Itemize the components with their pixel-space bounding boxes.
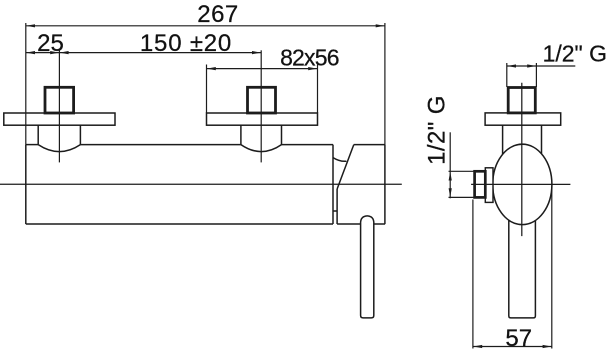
svg-text:1/2" G: 1/2" G: [543, 41, 607, 67]
svg-text:267: 267: [197, 1, 239, 28]
svg-text:1/2" G: 1/2" G: [424, 95, 451, 165]
svg-text:25: 25: [37, 30, 64, 57]
svg-text:57: 57: [505, 325, 532, 352]
svg-text:82x56: 82x56: [280, 45, 339, 71]
svg-text:150 ±20: 150 ±20: [140, 30, 232, 57]
